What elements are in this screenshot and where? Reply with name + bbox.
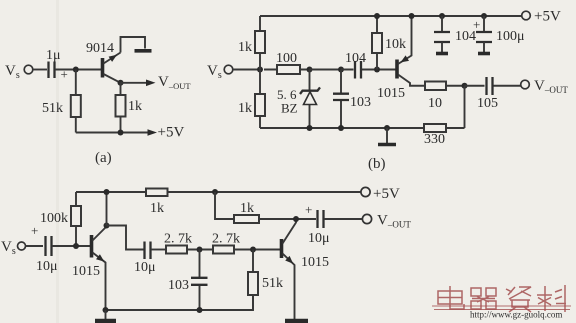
svg-text:103: 103 — [168, 278, 189, 293]
svg-text:(b): (b) — [368, 156, 386, 172]
wire — [234, 249, 281, 251]
svg-text:+: + — [31, 223, 38, 238]
svg-text:BZ: BZ — [281, 101, 298, 116]
node emitter junction (a) — [118, 80, 124, 86]
svg-text:1μ: 1μ — [46, 48, 61, 63]
node Vs input terminal (b) — [207, 63, 233, 81]
zener diode 5.6 BZ (b) — [277, 70, 320, 129]
wire — [324, 218, 363, 220]
node 100k base junction (c) — [73, 243, 79, 249]
scan crease — [56, 0, 59, 323]
node Vs input terminal (c) — [1, 239, 26, 257]
svg-text:10k: 10k — [385, 37, 406, 52]
svg-text:(a): (a) — [95, 150, 112, 166]
node V-OUT terminal (b) — [521, 78, 569, 95]
wire — [151, 249, 166, 251]
svg-text:2. 7k: 2. 7k — [212, 232, 240, 247]
resistor 1k (a) — [116, 83, 143, 133]
svg-text:+: + — [305, 202, 312, 217]
capacitor 103 (c) — [168, 250, 208, 311]
wire collector to ground (a) — [121, 37, 146, 53]
node emitter ground junction (c) — [103, 307, 109, 313]
watermark 电器资料 — [438, 285, 566, 312]
node 103 ground junction (c) — [197, 307, 203, 313]
svg-text:+5V: +5V — [158, 125, 185, 141]
node 103 bottom (b) — [338, 125, 344, 131]
wire — [52, 245, 91, 247]
resistor 10k (b) — [372, 16, 406, 70]
svg-text:1k: 1k — [238, 101, 252, 116]
svg-text:1k: 1k — [150, 201, 164, 216]
capacitor 10μ interstage (c) — [134, 242, 156, 276]
node 1k bottom junction (a) — [118, 130, 124, 136]
wire bottom rail (b) — [260, 127, 465, 129]
resistor 1k lower (b) — [238, 70, 265, 129]
resistor 1k upper (b) — [238, 16, 265, 70]
transistor Q2 1015 (b) — [377, 16, 425, 101]
svg-text:1k: 1k — [238, 40, 252, 55]
svg-text:100μ: 100μ — [496, 29, 525, 44]
watermark underline — [432, 306, 571, 310]
ground (c right) — [285, 319, 308, 323]
wire collector branch to coupling cap (c) — [107, 226, 145, 250]
wire bottom rail (c) — [106, 295, 254, 310]
svg-text:10μ: 10μ — [134, 260, 156, 275]
svg-text:51k: 51k — [262, 276, 283, 291]
capacitor 103 (b) — [333, 70, 371, 129]
resistor 330 (b) — [424, 124, 446, 147]
node 51k junction (c) — [250, 247, 256, 253]
node 103 junction (c) — [197, 247, 203, 253]
node rail tap output branch (c) — [212, 189, 218, 195]
svg-text:+: + — [473, 17, 480, 32]
capacitor 10μ output (c) — [305, 202, 330, 246]
ground (a) — [135, 49, 152, 53]
resistor 1k second (c) — [234, 201, 259, 223]
svg-text:9014: 9014 — [86, 41, 114, 56]
wire — [26, 245, 44, 247]
wire — [55, 69, 101, 71]
svg-text:10μ: 10μ — [308, 231, 330, 246]
resistor 100k (c) — [40, 206, 81, 246]
node zener bottom (b) — [307, 125, 313, 131]
capacitor 1μ (a) — [46, 48, 68, 82]
svg-text:1k: 1k — [128, 99, 142, 114]
node base junction (a) — [73, 67, 79, 73]
node Vs input terminal (a) — [5, 63, 33, 81]
resistor 1k first on rail (c) — [146, 189, 168, 217]
transistor Q4 1015 (c right) — [282, 220, 330, 320]
node +5V terminal (b) — [522, 9, 561, 25]
resistor 100 (b) — [264, 51, 310, 74]
wire bottom rail +5V (a) — [76, 125, 185, 141]
ground (c left) — [95, 310, 116, 321]
transistor Q1 9014 (a) — [86, 41, 121, 83]
node emitter output junction (c) — [293, 216, 299, 222]
wire — [233, 69, 260, 71]
wire collector to rail (c left) — [106, 192, 108, 226]
capacitor 105 (b) — [465, 77, 521, 111]
node rail emitter tap (b) — [409, 13, 415, 19]
node before 103 (b) — [338, 67, 344, 73]
capacitor 104 bypass (b) — [434, 13, 476, 54]
transistor Q3 1015 (c left) — [72, 227, 107, 311]
svg-text:330: 330 — [424, 132, 445, 147]
svg-text:http://www.gz-guolq.com: http://www.gz-guolq.com — [470, 310, 562, 320]
svg-text:10: 10 — [428, 96, 442, 111]
wire — [187, 249, 213, 251]
capacitor 100μ bypass (b) — [473, 13, 525, 54]
node +5V terminal (c) — [361, 186, 400, 202]
resistor 51k (c) — [248, 250, 283, 311]
wire — [310, 69, 342, 71]
node rail tap collector (c) — [104, 189, 110, 195]
svg-text:1015: 1015 — [72, 264, 100, 279]
node input junction (b) — [257, 67, 263, 73]
node after 100 (b) — [307, 67, 313, 73]
capacitor 10μ input (c) — [31, 223, 58, 274]
svg-text:1015: 1015 — [377, 86, 405, 101]
wire top rail (b) — [260, 15, 522, 17]
wire output branch drop (c) — [215, 192, 234, 219]
svg-text:2. 7k: 2. 7k — [164, 232, 192, 247]
svg-text:100: 100 — [276, 51, 297, 66]
wire V-OUT output (a) — [121, 74, 192, 91]
resistor 10 (b) — [425, 82, 465, 112]
svg-text:51k: 51k — [42, 101, 63, 116]
svg-text:+5V: +5V — [534, 9, 561, 25]
node V-OUT terminal (c) — [362, 213, 411, 230]
resistor 2.7k first (c) — [164, 232, 192, 254]
svg-text:1k: 1k — [240, 201, 254, 216]
svg-text:105: 105 — [477, 96, 498, 111]
node collector junction (c left) — [104, 223, 110, 229]
node rail 10k tap (b) — [374, 13, 380, 19]
wire top rail (c) — [76, 192, 361, 206]
node output junction (b) — [462, 83, 468, 89]
svg-text:1015: 1015 — [301, 255, 329, 270]
svg-text:103: 103 — [350, 95, 371, 110]
node ground junction (b) — [384, 125, 390, 131]
resistor 51k (a) — [42, 70, 81, 133]
ground (b) — [378, 128, 396, 145]
node base bias junction (b) — [374, 67, 380, 73]
svg-text:+5V: +5V — [373, 186, 400, 202]
wire feedback drop (b) — [464, 86, 466, 128]
svg-text:10μ: 10μ — [36, 259, 58, 274]
wire — [259, 218, 316, 220]
svg-text:100k: 100k — [40, 211, 68, 226]
wire — [33, 69, 47, 71]
capacitor 104 coupling (b) — [341, 51, 397, 79]
resistor 2.7k second (c) — [212, 232, 240, 254]
svg-text:104: 104 — [345, 51, 366, 66]
